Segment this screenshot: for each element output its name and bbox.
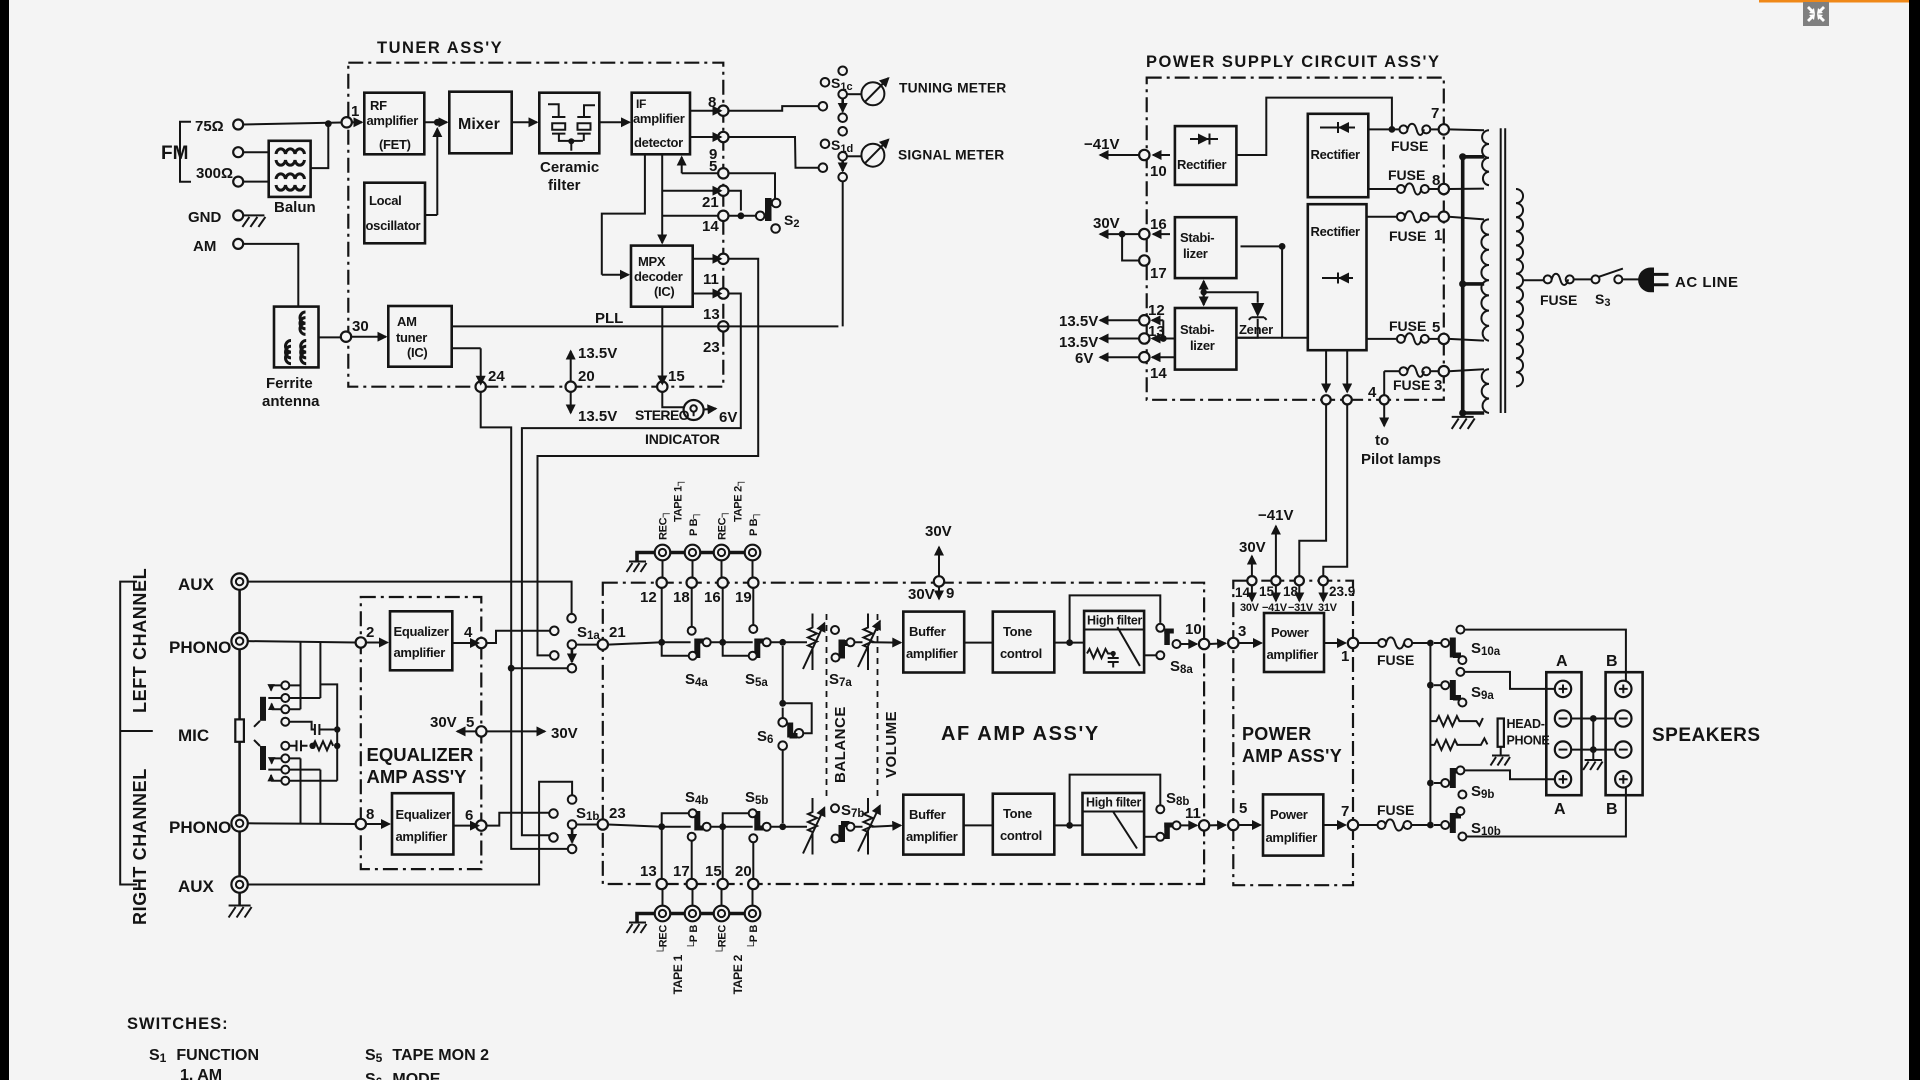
AF border pin 13 [657,879,667,889]
svg-text:30V: 30V [925,523,952,540]
wires mic upper jack to phono left line [289,642,300,710]
svg-text:5: 5 [1239,800,1247,817]
svg-text:14: 14 [1235,585,1251,600]
svg-text:15: 15 [668,368,685,385]
stereo indicator lamp [662,392,684,407]
svg-text:3: 3 [1238,623,1246,640]
svg-text:PHONO: PHONO [169,818,231,837]
svg-text:14: 14 [1150,365,1167,382]
tape jacks ground (top) [637,553,648,561]
transformer secondary winding 1 [1482,130,1489,185]
svg-text:amplifier: amplifier [906,646,958,661]
balance potentiometer (left) [808,614,817,671]
svg-text:4: 4 [1368,384,1377,401]
psu pin 17 [1139,255,1149,265]
wire pin 24 net down to S1a and S1b [481,392,568,849]
tape2 rec jack (bottom) [714,906,730,922]
svg-text:(IC): (IC) [654,284,674,299]
svg-text:FUSE: FUSE [1389,318,1426,334]
mic switch jack upper [260,697,266,721]
wire fuse to speaker switch bus (right) [1411,824,1430,826]
speaker switch S10a [1434,642,1441,644]
svg-text:15: 15 [1259,584,1275,599]
power amplifier (left) [1264,613,1324,672]
speaker fuse (left) [1358,642,1378,644]
svg-text:AMP ASS'Y: AMP ASS'Y [1242,746,1342,766]
right black screen edge [1909,0,1920,1080]
13.5V supply arrow down at pin 20 [570,392,572,413]
svg-text:amplifier: amplifier [396,829,448,844]
tape2 pb jack (top) [745,545,761,561]
svg-text:SWITCHES:: SWITCHES: [127,1015,229,1033]
svg-text:FUSE: FUSE [1377,652,1414,668]
tape jack stubs to AF border (bottom) [663,889,753,906]
wire rectifier output to stabilizers [1241,246,1308,337]
tape monitor switch S5a [754,639,764,644]
wires psu bottom to power amp pins 18 23.9 [1299,405,1326,578]
eq border pin 4 [476,638,486,648]
svg-text:7: 7 [1431,105,1439,122]
svg-text:30: 30 [352,318,369,335]
svg-text:TAPE 1: TAPE 1 [671,954,685,994]
rectifier (main positive) [1308,114,1369,197]
stabilizer (13.5V 6V) [1175,308,1237,370]
AF border pin 18 [687,578,697,588]
svg-text:11: 11 [1185,805,1201,822]
wire pin 23 to S4b [608,825,691,827]
terminal A minus mid2 [1555,741,1571,757]
svg-text:6: 6 [465,807,473,824]
filter switch S8a [1156,624,1164,632]
svg-text:1: 1 [351,103,359,120]
wire pin 9 to S1d [729,137,819,168]
svg-text:A: A [1554,801,1566,818]
svg-text:30V: 30V [1239,539,1266,556]
wire power amplifier to pin 1 [1324,642,1346,644]
svg-text:(IC): (IC) [407,345,427,360]
svg-text:16: 16 [1150,216,1167,233]
wire pin 5 feedback into IF amplifier [682,172,718,174]
wire high filter to S8a [1144,654,1156,656]
wire local oscillator to mixer input [425,214,437,216]
tuner right border pin 9 [718,132,728,142]
svg-text:POWER: POWER [1242,724,1312,744]
svg-text:POWER SUPPLY CIRCUIT ASS'Y: POWER SUPPLY CIRCUIT ASS'Y [1146,53,1440,71]
svg-text:SPEAKERS: SPEAKERS [1652,725,1761,746]
svg-text:EQUALIZER: EQUALIZER [367,744,474,765]
tuner right border pin 5 [718,168,728,178]
loudness switch S7b [831,804,839,812]
speaker switch S9b [1434,782,1441,784]
AF border pin 21 [598,639,608,649]
to pilot lamps arrow [1383,404,1385,426]
speaker terminal strip B [1606,672,1643,795]
svg-text:Equalizer: Equalizer [394,624,449,639]
svg-text:Pilot lamps: Pilot lamps [1361,451,1441,468]
svg-text:INDICATOR: INDICATOR [645,431,720,447]
wire pin 21 to S4a [608,642,691,644]
wire rectifier output to lower stabilizer [1237,337,1283,339]
wire AUX left to S1a top contact [248,582,572,614]
svg-text:decoder: decoder [634,269,683,284]
fuse 7 [1400,125,1408,133]
svg-text:23.9: 23.9 [1329,584,1355,599]
psu pin 14 [1139,352,1149,362]
6V output arrow [1100,356,1139,358]
left black screen edge [0,0,9,1080]
svg-text:30V: 30V [551,725,578,742]
svg-text:(FET): (FET) [379,137,411,152]
svg-text:MIC: MIC [178,726,209,745]
power supply dash-dot border [1147,78,1444,400]
wire rectifier to pin 10 [1153,154,1170,156]
svg-text:AM: AM [397,314,417,329]
svg-text:IF: IF [636,97,646,111]
wire pin 18 stub [691,588,693,627]
volume dashed link [877,614,879,800]
wire AF pin 10 to power amp pin 3 [1209,642,1225,645]
svg-text:tuner: tuner [396,330,427,345]
svg-text:FUSE: FUSE [1391,138,1428,154]
tape monitor switch S4a [662,642,689,655]
speaker switch S10b [1434,824,1441,826]
svg-text:Tone: Tone [1003,624,1032,639]
headphone resistor lower [1430,738,1487,750]
tuner right border pin 23 [718,321,728,331]
speaker fuse (right) [1358,824,1377,826]
wire phono left to pin 2 [248,641,356,642]
psu pin 5 [1429,338,1439,340]
svg-text:4: 4 [464,624,473,641]
tuner right border pin 8 [718,106,728,116]
wire mixer to ceramic filter [512,121,537,123]
wire volume to buffer amplifier (right) [872,825,901,826]
svg-text:−41V: −41V [1084,136,1119,153]
svg-text:23: 23 [703,339,720,356]
wire rectifier input from fuse 7 net [1236,98,1392,155]
psu pin 1 [1429,216,1439,218]
tape jacks bus (bottom) [637,914,648,922]
power amp dash-dot border [1233,581,1353,886]
svg-text:AUX: AUX [178,575,215,594]
svg-text:PHONO: PHONO [169,638,231,657]
headphone jack [1498,719,1504,747]
terminal B plus top [1615,681,1631,697]
svg-text:21: 21 [609,624,626,641]
tape1 rec jack (top) [655,545,671,561]
svg-text:Rectifier: Rectifier [1177,157,1227,172]
svg-text:lizer: lizer [1183,246,1208,261]
wire MPX decoder to pin 13 [693,293,721,295]
transformer core [1501,128,1506,413]
rectifier (main lower bridge) [1308,204,1367,350]
wire IF amplifier down to MPX top and pins 21,14 [661,154,663,243]
svg-text:GND: GND [188,209,222,226]
wire pin 8 to S1c [729,106,819,111]
fuse 1 [1367,216,1397,218]
left channel bracket [120,582,153,885]
fuse 3 [1384,370,1399,372]
zener diode [1204,292,1258,303]
svg-text:amplifier: amplifier [633,111,685,126]
svg-text:TUNING METER: TUNING METER [899,81,1006,96]
svg-text:30V: 30V [908,586,935,603]
svg-text:6V: 6V [719,409,737,426]
wires between minus terminals [1571,719,1615,750]
mic network vertical tie [289,684,337,780]
svg-text:SIGNAL METER: SIGNAL METER [898,148,1004,163]
svg-text:17: 17 [1150,265,1167,282]
tuner bottom pin 15 [657,382,667,392]
terminal B minus mid2 [1615,741,1631,757]
wire IF amplifier to MPX decoder input [602,154,645,274]
svg-text:Power: Power [1271,625,1309,640]
svg-text:30V: 30V [1240,602,1260,614]
tuner pin 1 [342,117,352,127]
stabilizer (30V) [1175,217,1237,278]
30V arrow right from pin 5 [487,730,546,732]
orange loading bar [1759,0,1909,3]
wire S10a to speaker B plus [1464,630,1626,681]
wire pin1 to RF amplifier [352,121,362,123]
RF amplifier [364,93,424,155]
speaker terminal strip A [1546,672,1581,795]
switch S1d [838,127,847,136]
svg-text:21: 21 [702,194,719,211]
svg-text:control: control [1000,646,1042,661]
svg-text:Zener: Zener [1239,322,1273,337]
svg-text:11: 11 [703,271,719,288]
wire pin 19 stub [752,588,754,625]
tuner bottom pin 24 [476,382,486,392]
svg-text:FUSE: FUSE [1388,167,1425,183]
wire pin 13 net down to S1b left contact [522,294,741,836]
svg-text:5: 5 [466,714,474,731]
ground (transformer bus) [1452,417,1475,429]
svg-text:LEFT CHANNEL: LEFT CHANNEL [130,568,150,713]
svg-text:3: 3 [1434,377,1442,394]
fuse 8 [1368,188,1397,190]
AF border pin 23 [598,819,608,829]
svg-text:lizer: lizer [1190,338,1215,353]
wire balun output to antenna line [311,124,329,168]
svg-text:filter: filter [548,177,581,194]
svg-text:TUNER ASS'Y: TUNER ASS'Y [377,39,503,57]
svg-text:2: 2 [366,624,374,641]
AF border pin 11 [1181,824,1197,826]
svg-text:−41V: −41V [1258,507,1293,524]
svg-text:HEAD-: HEAD- [1507,717,1545,731]
equalizer amplifier (left) [390,611,452,670]
AF border pin 15 [718,879,728,889]
svg-text:18: 18 [673,589,690,606]
AF amp dash-dot border [603,583,1204,884]
svg-text:13.5V: 13.5V [1059,334,1098,351]
wire S9a to speaker A plus [1464,672,1554,689]
wire equalizer amplifier to pin 4 [452,642,478,644]
terminal B minus mid1 [1615,710,1631,726]
mic coupling capacitor and resistor lower [289,740,307,751]
svg-text:control: control [1000,828,1042,843]
wire RF amplifier to mixer [424,121,447,123]
svg-text:9: 9 [946,585,954,602]
AF border pin 19 [748,578,758,588]
svg-text:oscillator: oscillator [366,218,421,233]
-41V output arrow [1100,154,1139,156]
svg-text:Stabi-: Stabi- [1180,230,1214,245]
psu pin 16 [1139,229,1149,239]
svg-text:REC┐: REC┐ [658,510,671,540]
svg-text:Buffer: Buffer [909,624,946,639]
wire rectifier to fuse 7 [1368,128,1399,130]
svg-text:Equalizer: Equalizer [396,807,451,822]
tuner right border pin 14 [718,211,728,221]
power switch S3 [1574,278,1592,280]
svg-text:amplifier: amplifier [906,829,958,844]
svg-text:Mixer: Mixer [458,116,500,133]
balance potentiometer (right) [808,798,817,855]
svg-text:20: 20 [735,863,752,880]
svg-text:AM: AM [193,238,216,255]
wire ferrite antenna to pin 30 [319,336,341,338]
rectifier bridge outputs down to border [1325,350,1327,392]
svg-text:STEREO: STEREO [635,407,690,423]
svg-text:└P B: └P B [746,925,760,950]
tuner bottom pin 20 [566,382,576,392]
svg-text:antenna: antenna [262,393,320,410]
svg-text:12: 12 [1148,302,1165,319]
svg-text:75Ω: 75Ω [195,118,224,135]
svg-text:300Ω: 300Ω [196,165,233,182]
svg-text:13: 13 [640,863,657,880]
tuner assembly dash-dot border [348,63,723,387]
ground (input bus) [229,906,252,918]
MPX decoder [631,246,693,307]
wire pins 16,17 tie [1122,234,1139,260]
wire pin 14 to S2 left contact [729,215,756,217]
AF border pin 16 [718,578,728,588]
svg-text:VOLUME: VOLUME [883,711,900,778]
wire pin 13 up to channel line [661,827,663,879]
eq border pin 2 [356,637,366,647]
psu pin 4 [1380,395,1389,404]
buffer amplifier (left) [903,612,964,673]
svg-text:High filter: High filter [1087,614,1142,628]
power amp pin 15 [1271,576,1280,585]
wires mic lower jack to phono right line [289,758,300,823]
high filter (right) [1083,793,1145,855]
wire power amplifier to pin 7 [1323,824,1345,826]
rectifier (negative supply) [1175,126,1237,185]
tape1 rec jack (bottom) [655,906,671,922]
AF border pin 20 [748,879,758,889]
wire pin 2 to equalizer amplifier [366,642,388,644]
local oscillator [364,183,425,244]
wire pin 17 stub [691,840,693,879]
svg-text:24: 24 [488,368,505,385]
wire S1b pole to AF pin 23 [576,824,598,826]
input bus line [238,582,241,905]
tone control (left) [993,612,1055,673]
supply arrows below pins [1251,585,1253,601]
AF border pin 17 [687,879,697,889]
AF border pin 12 [657,578,667,588]
wire pin 12 down to channel line [661,588,663,642]
speaker switch S9a [1434,684,1441,686]
svg-text:Power: Power [1270,807,1308,822]
tape2 rec jack (top) [714,545,730,561]
tuning meter [847,93,861,95]
wire AM tuner bottom to pin 24 [452,347,481,349]
svg-text:Ferrite: Ferrite [266,375,313,392]
svg-text:TAPE 2: TAPE 2 [731,954,745,994]
high filter bypass (right) [1070,775,1161,826]
svg-text:RIGHT CHANNEL: RIGHT CHANNEL [130,768,150,925]
svg-text:Balun: Balun [274,199,316,216]
ceramic filter [539,93,599,154]
power amp pin 18 [1295,576,1304,585]
AM tuner [388,306,451,367]
eq border pin 6 [476,820,486,830]
svg-text:13.5V: 13.5V [578,408,617,425]
svg-text:30V: 30V [1093,215,1120,232]
svg-text:PLL: PLL [595,310,623,327]
power amplifier (right) [1263,794,1323,855]
tape1 pb jack (bottom) [685,906,701,922]
wire fuse to speaker switches [1412,642,1430,644]
svg-text:FUSE: FUSE [1377,802,1414,818]
svg-text:B: B [1606,653,1618,670]
svg-text:BALANCE: BALANCE [832,706,849,783]
wire high filter to S8b [1144,836,1156,838]
svg-text:amplifier: amplifier [367,113,419,128]
wire pin 3 to power amplifier [1239,642,1262,644]
function switch S1a [567,614,576,623]
svg-text:18: 18 [1283,584,1299,599]
psu pin 13 [1139,333,1149,343]
wire S1a pole to AF pin 21 [576,644,598,646]
mic switch jack lower [260,746,266,770]
wire AF pin 11 to power amp pin 5 [1209,824,1225,826]
tape monitor switch S5b [754,826,764,831]
wire S5b to balance pot right [771,826,807,828]
balance dashed link [826,614,828,797]
svg-text:30V: 30V [430,714,457,731]
svg-text:FUSE: FUSE [1540,292,1577,308]
30V output arrow [1100,233,1139,235]
svg-text:Buffer: Buffer [909,807,946,822]
svg-text:amplifier: amplifier [1266,830,1318,845]
svg-text:10: 10 [1185,621,1202,638]
volume potentiometer (left) [855,614,873,671]
svg-text:AF AMP ASS'Y: AF AMP ASS'Y [941,723,1100,745]
wire pin 30 to AM tuner [351,336,386,338]
svg-text:MPX: MPX [638,254,666,269]
psu pin 12 [1139,315,1149,325]
eq border pin 5 [476,726,486,736]
svg-text:P B┐: P B┐ [748,511,761,536]
wire MPX decoder to pin 11 [693,258,721,260]
power amp pin 3 [1228,638,1238,648]
30V arrow left at pin 5 [457,730,476,732]
transformer primary winding [1516,189,1523,386]
tape1 pb jack (top) [685,545,701,561]
wire pin 5 to power amplifier [1239,824,1261,826]
svg-text:detector: detector [634,135,683,150]
svg-text:6V: 6V [1075,350,1093,367]
wire S4b to S5b [711,826,753,828]
transformer centre tap bus [1461,157,1465,415]
